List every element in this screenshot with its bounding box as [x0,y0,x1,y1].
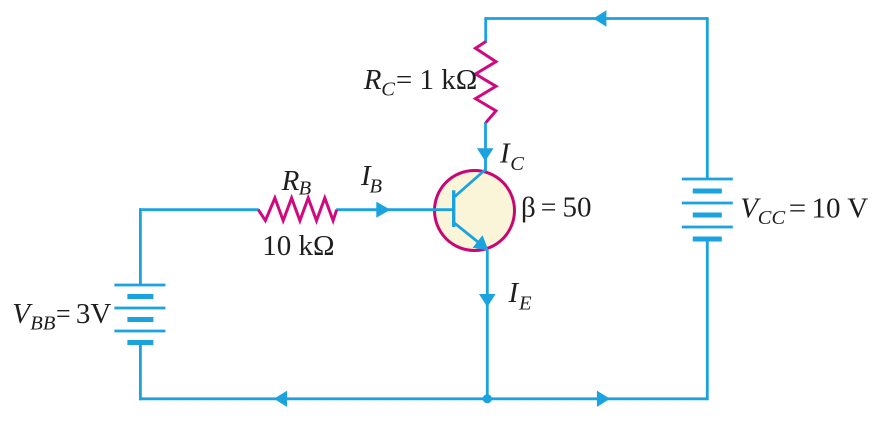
wire right vertical upper [706,17,709,180]
arrow IC pointing down [477,148,494,161]
svg-text:10 kΩ: 10 kΩ [262,230,334,262]
arrow on top wire pointing left [593,10,606,26]
transistor emitter arrowhead [473,235,489,250]
svg-text:=: = [56,298,71,330]
label RC = 1 kOhm [363,64,478,100]
svg-text:B: B [370,175,383,197]
svg-text:CC: CC [758,207,786,229]
svg-text:I: I [499,138,511,170]
battery VBB [114,285,165,343]
svg-text:C: C [381,78,395,100]
svg-text:=: = [789,192,806,224]
svg-text:R: R [363,64,382,96]
svg-text:=: = [541,192,557,224]
arrow IE pointing down [479,294,496,307]
wire collector vertical above circle [484,122,487,171]
wire left vertical upper [139,208,142,285]
resistor RB [258,198,336,221]
svg-text:R: R [281,165,300,197]
wire top horizontal [486,17,708,20]
svg-text:C: C [510,153,524,175]
wire RC top vertical [484,17,487,43]
svg-text:B: B [299,178,312,200]
battery VCC [682,179,733,239]
wire left vertical lower [139,343,142,401]
transistor Q1 circle [435,171,515,251]
label IB [360,160,383,197]
label VCC = 10 V [740,192,868,229]
wire base horizontal right of RB [336,208,454,211]
arrow on bottom wire left pointing left [274,391,287,407]
transistor base bar [452,190,455,227]
wire emitter vertical below circle [486,250,489,399]
svg-text:10 V: 10 V [812,192,869,224]
svg-text:BB: BB [30,312,56,334]
svg-text:3V: 3V [76,298,112,330]
arrow IB pointing right [376,202,390,218]
transistor base lead inside circle [433,208,454,211]
label IC [499,138,524,176]
svg-text:50: 50 [563,192,592,224]
svg-text:I: I [508,277,520,309]
resistor RC [476,42,497,123]
label VBB = 3V [12,298,111,334]
label IE [508,277,533,315]
svg-text:= 1 kΩ: = 1 kΩ [396,64,477,96]
transistor collector diagonal [454,170,486,198]
wire bottom horizontal [139,397,707,400]
wire base horizontal left of RB [139,208,259,211]
label RB [281,165,312,200]
transistor emitter diagonal [454,223,488,250]
wire right vertical lower [706,239,709,400]
arrow on bottom wire right pointing right [597,391,610,407]
junction dot at emitter/bottom wire [483,394,492,403]
svg-text:β: β [521,192,536,224]
svg-text:E: E [518,292,532,314]
